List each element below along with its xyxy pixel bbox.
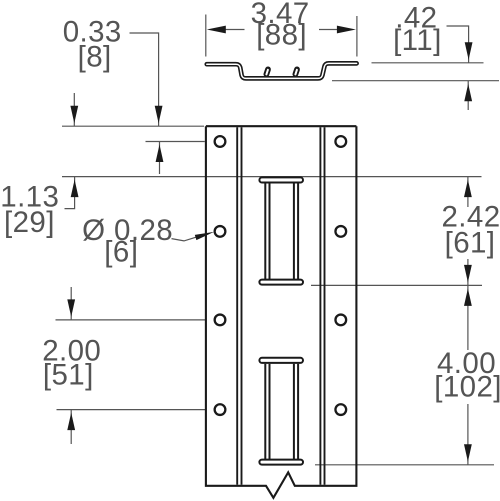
2.42 upper shaft <box>467 177 469 207</box>
2.42 lower shaft <box>467 259 469 285</box>
hole row3 extension line <box>56 319 206 321</box>
2.00 down arrow <box>67 299 75 317</box>
bottom slot top cap <box>259 358 303 363</box>
svg-text:[29]: [29] <box>4 206 55 239</box>
tab 2 core <box>295 70 297 75</box>
.42 up arrow <box>464 84 472 102</box>
right bend line inner <box>319 127 321 485</box>
slot-top extension line <box>62 176 482 178</box>
.42 lower arrow shaft <box>467 81 469 110</box>
dia 0.28 leader <box>172 237 197 241</box>
hole left row1 <box>215 136 226 147</box>
svg-text:[88]: [88] <box>256 19 307 52</box>
4.00 up arrow <box>464 288 472 306</box>
metal outer <box>207 63 357 78</box>
2.00 up arrow <box>67 413 75 431</box>
hole left row2 <box>215 226 226 237</box>
svg-text:[11]: [11] <box>393 24 442 57</box>
4.00 lower shaft <box>467 404 469 465</box>
top slot stem right inner <box>293 183 295 280</box>
4.00 down arrow <box>464 444 472 462</box>
top slot top cap <box>259 177 303 182</box>
svg-text:[102]: [102] <box>434 371 500 404</box>
.42 down arrow <box>465 42 473 60</box>
top slot stem right outer <box>297 183 299 280</box>
profile top extension line <box>372 62 484 64</box>
tab 2 <box>295 69 297 74</box>
tab 1 core <box>266 70 268 75</box>
left bend line outer <box>236 127 238 485</box>
2.00 upper arrow shaft <box>70 287 72 320</box>
3.47 dimension line shafts <box>225 29 245 31</box>
svg-text:[61]: [61] <box>445 227 496 260</box>
top slot stem left inner <box>269 183 271 280</box>
.42 leader + down shaft <box>447 26 469 63</box>
hole right row3 <box>335 315 346 326</box>
2.42 down arrow <box>464 265 472 283</box>
1.13 upper arrow shaft <box>73 93 75 126</box>
hole right row4 <box>335 404 346 415</box>
svg-text:[51]: [51] <box>43 358 94 391</box>
outline with break zigzag at bottom <box>206 126 357 498</box>
bottom-slot-bottom extension line <box>315 464 494 466</box>
0.33 leader + down shaft <box>130 33 159 126</box>
profile bottom extension line <box>332 80 499 82</box>
1.13 up arrow <box>71 180 79 198</box>
left bend line inner <box>241 127 243 485</box>
0.33 down arrow <box>155 106 163 124</box>
4.00 upper shaft <box>467 285 469 350</box>
dia 0.28 leader arrow <box>195 232 214 240</box>
top slot bottom cap <box>259 280 303 285</box>
bottom slot bottom cap <box>259 460 303 465</box>
1.13 lower arrow shaft + foot <box>65 177 75 209</box>
hole row4 extension line <box>57 409 206 411</box>
1.13 down arrow <box>70 106 78 124</box>
bottom slot stem right inner <box>293 364 295 460</box>
bottom slot stem left inner <box>269 364 271 460</box>
2.00 lower arrow shaft <box>70 410 72 444</box>
3.47 left arrow <box>207 26 226 34</box>
0.33 lower arrow shaft <box>159 142 161 175</box>
3.47 right extension line <box>356 16 358 57</box>
2.42 up arrow <box>464 180 472 198</box>
hole right row2 <box>335 226 346 237</box>
hole right row1 <box>335 136 346 147</box>
3.47 right arrow <box>337 26 356 34</box>
slot-bottom extension line <box>311 284 482 286</box>
metal core <box>207 63 357 78</box>
top edge extension line <box>62 125 204 127</box>
3.47 left extension line <box>205 15 207 57</box>
svg-text:[8]: [8] <box>78 40 112 73</box>
0.33 up arrow <box>156 145 164 163</box>
top slot stem left outer <box>264 183 266 280</box>
bottom slot stem left outer <box>264 364 266 460</box>
hole left row4 <box>215 404 226 415</box>
hole row1 extension line <box>146 141 205 143</box>
right bend line outer <box>324 127 326 485</box>
svg-text:[6]: [6] <box>104 236 138 269</box>
bottom slot stem right outer <box>297 364 299 460</box>
tab 1 <box>266 69 268 74</box>
hole left row3 <box>215 315 226 326</box>
